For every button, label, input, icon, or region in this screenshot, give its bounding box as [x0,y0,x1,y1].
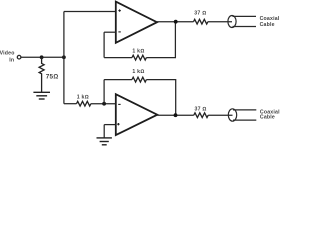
wire to bottom coax [208,114,232,116]
label coaxial cable bottom [260,109,280,120]
wire U1 feedback bottom right [146,22,175,58]
resistor R feedback U2 1k [132,77,146,82]
node junction dot U2 inverting input [102,102,106,106]
wire U2 noninverting input [104,124,116,126]
svg-text:1 kΩ: 1 kΩ [77,95,89,101]
wire U2 feedback top left [104,79,132,81]
wire to top coax [208,21,232,23]
svg-text:37 Ω: 37 Ω [195,106,207,112]
node junction dot input tee [62,55,66,59]
svg-text:1 kΩ: 1 kΩ [132,48,144,54]
ground under 75 ohm resistor [33,92,50,99]
svg-text:1 kΩ: 1 kΩ [132,69,144,75]
resistor R 37 ohm top [194,19,208,24]
ground under U2 noninverting input [97,138,112,145]
node junction dot U1 output [174,20,178,24]
node Video In label [0,51,15,64]
wire U2 noninverting down to ground [103,125,105,138]
svg-text:Cable: Cable [260,22,275,28]
svg-text:37 Ω: 37 Ω [194,10,206,16]
wire U1 inverting input [104,31,116,33]
wire to U2 inverting input [91,103,116,105]
resistor R input 1k bottom [77,101,91,106]
resistor R feedback U1 1k [132,55,146,60]
input terminal circle [17,55,21,59]
coax connector bottom [228,109,256,121]
wire U1 feedback bottom with resistor leads [104,57,132,59]
svg-text:In: In [9,58,14,64]
wire U2 output [157,114,194,116]
node junction dot U2 output [174,113,178,117]
wire U2 feedback left vertical [103,80,105,104]
op-amp U2 bottom [116,94,158,135]
wire U2 feedback top right [146,80,175,116]
wire U1 output [157,21,194,23]
wire input vertical rail [63,12,65,104]
wire input horizontal [21,56,64,58]
node junction dot at 75 ohm tap [40,55,44,59]
op-amp U1 top [116,2,157,43]
coax connector top [228,16,256,28]
wire lower input branch [64,103,77,105]
wire U1 feedback left vertical [103,32,105,57]
resistor R 75 ohm vertical [39,57,44,92]
svg-text:Video: Video [0,51,15,57]
wire to U1 noninverting input [64,11,116,13]
resistor R 37 ohm bottom [194,113,208,118]
label coaxial cable top [260,16,280,28]
svg-text:Cable: Cable [260,115,275,121]
svg-text:75Ω: 75Ω [46,73,59,80]
